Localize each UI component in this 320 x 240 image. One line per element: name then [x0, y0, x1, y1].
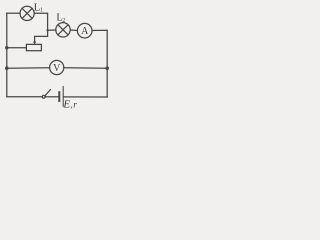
resistor R (rheostat body): [26, 44, 41, 50]
ammeter A1 circle: [77, 23, 92, 38]
wire: lamp L2 to ammeter: [70, 29, 77, 32]
wire: left rail to resistor R: [7, 47, 27, 49]
wire: ammeter to right rail corner: [92, 30, 107, 68]
junction node: left rail / voltmeter wire: [5, 66, 9, 70]
lamp L2: [56, 23, 70, 37]
wire: node J1 to lamp L2: [48, 29, 56, 31]
voltmeter V1 circle: [50, 60, 64, 74]
switch S lever: [45, 90, 50, 96]
junction node: right rail / voltmeter wire: [105, 66, 109, 70]
wire: left rail vertical: [6, 13, 8, 97]
rheostat slider arrowhead: [33, 42, 36, 45]
svg-text:1: 1: [40, 8, 43, 14]
wire: slider tap from node J1 down and left to rheostat arrow: [35, 30, 48, 42]
lamp L1: [20, 6, 34, 20]
junction node: left rail / resistor wire: [5, 46, 8, 49]
svg-text:V: V: [53, 63, 61, 74]
wire: from lamp L1 to top-right corner and down to node J1: [34, 13, 47, 30]
battery positive plate (long thin): [62, 87, 64, 107]
battery negative plate (short thick): [58, 92, 60, 101]
switch S pivot circle: [42, 95, 45, 98]
wire: switch to battery: [45, 96, 58, 98]
wire: voltmeter row left: [7, 67, 50, 69]
junction node J1: lamps / slider tap: [46, 29, 48, 31]
wire: bottom left from left rail to switch: [7, 96, 42, 98]
wire: voltmeter to right rail: [64, 67, 107, 70]
svg-text:E,r: E,r: [62, 99, 77, 111]
svg-text:2: 2: [62, 18, 65, 24]
wire: bottom right from battery to right rail: [63, 96, 107, 98]
svg-text:A: A: [81, 26, 89, 37]
wire: top left segment from left rail to lamp L1: [7, 12, 20, 14]
wire: right rail lower segment: [106, 68, 108, 97]
